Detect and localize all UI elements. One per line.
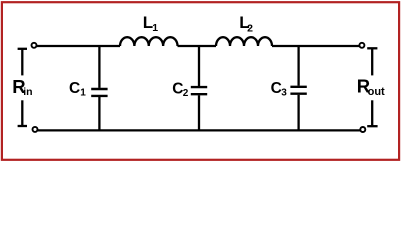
label C3 [271,80,288,99]
node output bottom terminal [360,127,365,132]
capacitor C2 [191,46,207,130]
node input bottom terminal [33,127,38,132]
svg-text:2: 2 [247,22,253,34]
svg-text:2: 2 [183,88,189,99]
svg-text:3: 3 [281,88,287,99]
label L2 [239,13,253,34]
node input top terminal [32,43,37,48]
label Rout [357,76,385,99]
svg-text:1: 1 [80,88,86,99]
port Rout bracket [367,48,377,126]
inductor L1 [120,37,178,46]
capacitor C3 [290,46,306,130]
svg-text:C: C [172,80,183,97]
label C2 [172,80,189,99]
svg-text:1: 1 [152,22,158,34]
label Rin [12,76,32,98]
capacitor C1 [91,46,107,130]
label L1 [143,13,159,34]
wire top rail right [272,45,359,47]
node output top terminal [359,43,364,48]
svg-text:in: in [23,86,32,98]
label C1 [69,80,86,99]
wire top rail left [37,45,120,47]
wire bottom rail [38,129,361,131]
svg-text:out: out [368,86,385,98]
svg-text:C: C [271,80,282,97]
wire top rail middle [178,45,217,47]
inductor L2 [216,37,272,46]
svg-text:C: C [69,80,80,97]
port Rin bracket [18,49,27,126]
